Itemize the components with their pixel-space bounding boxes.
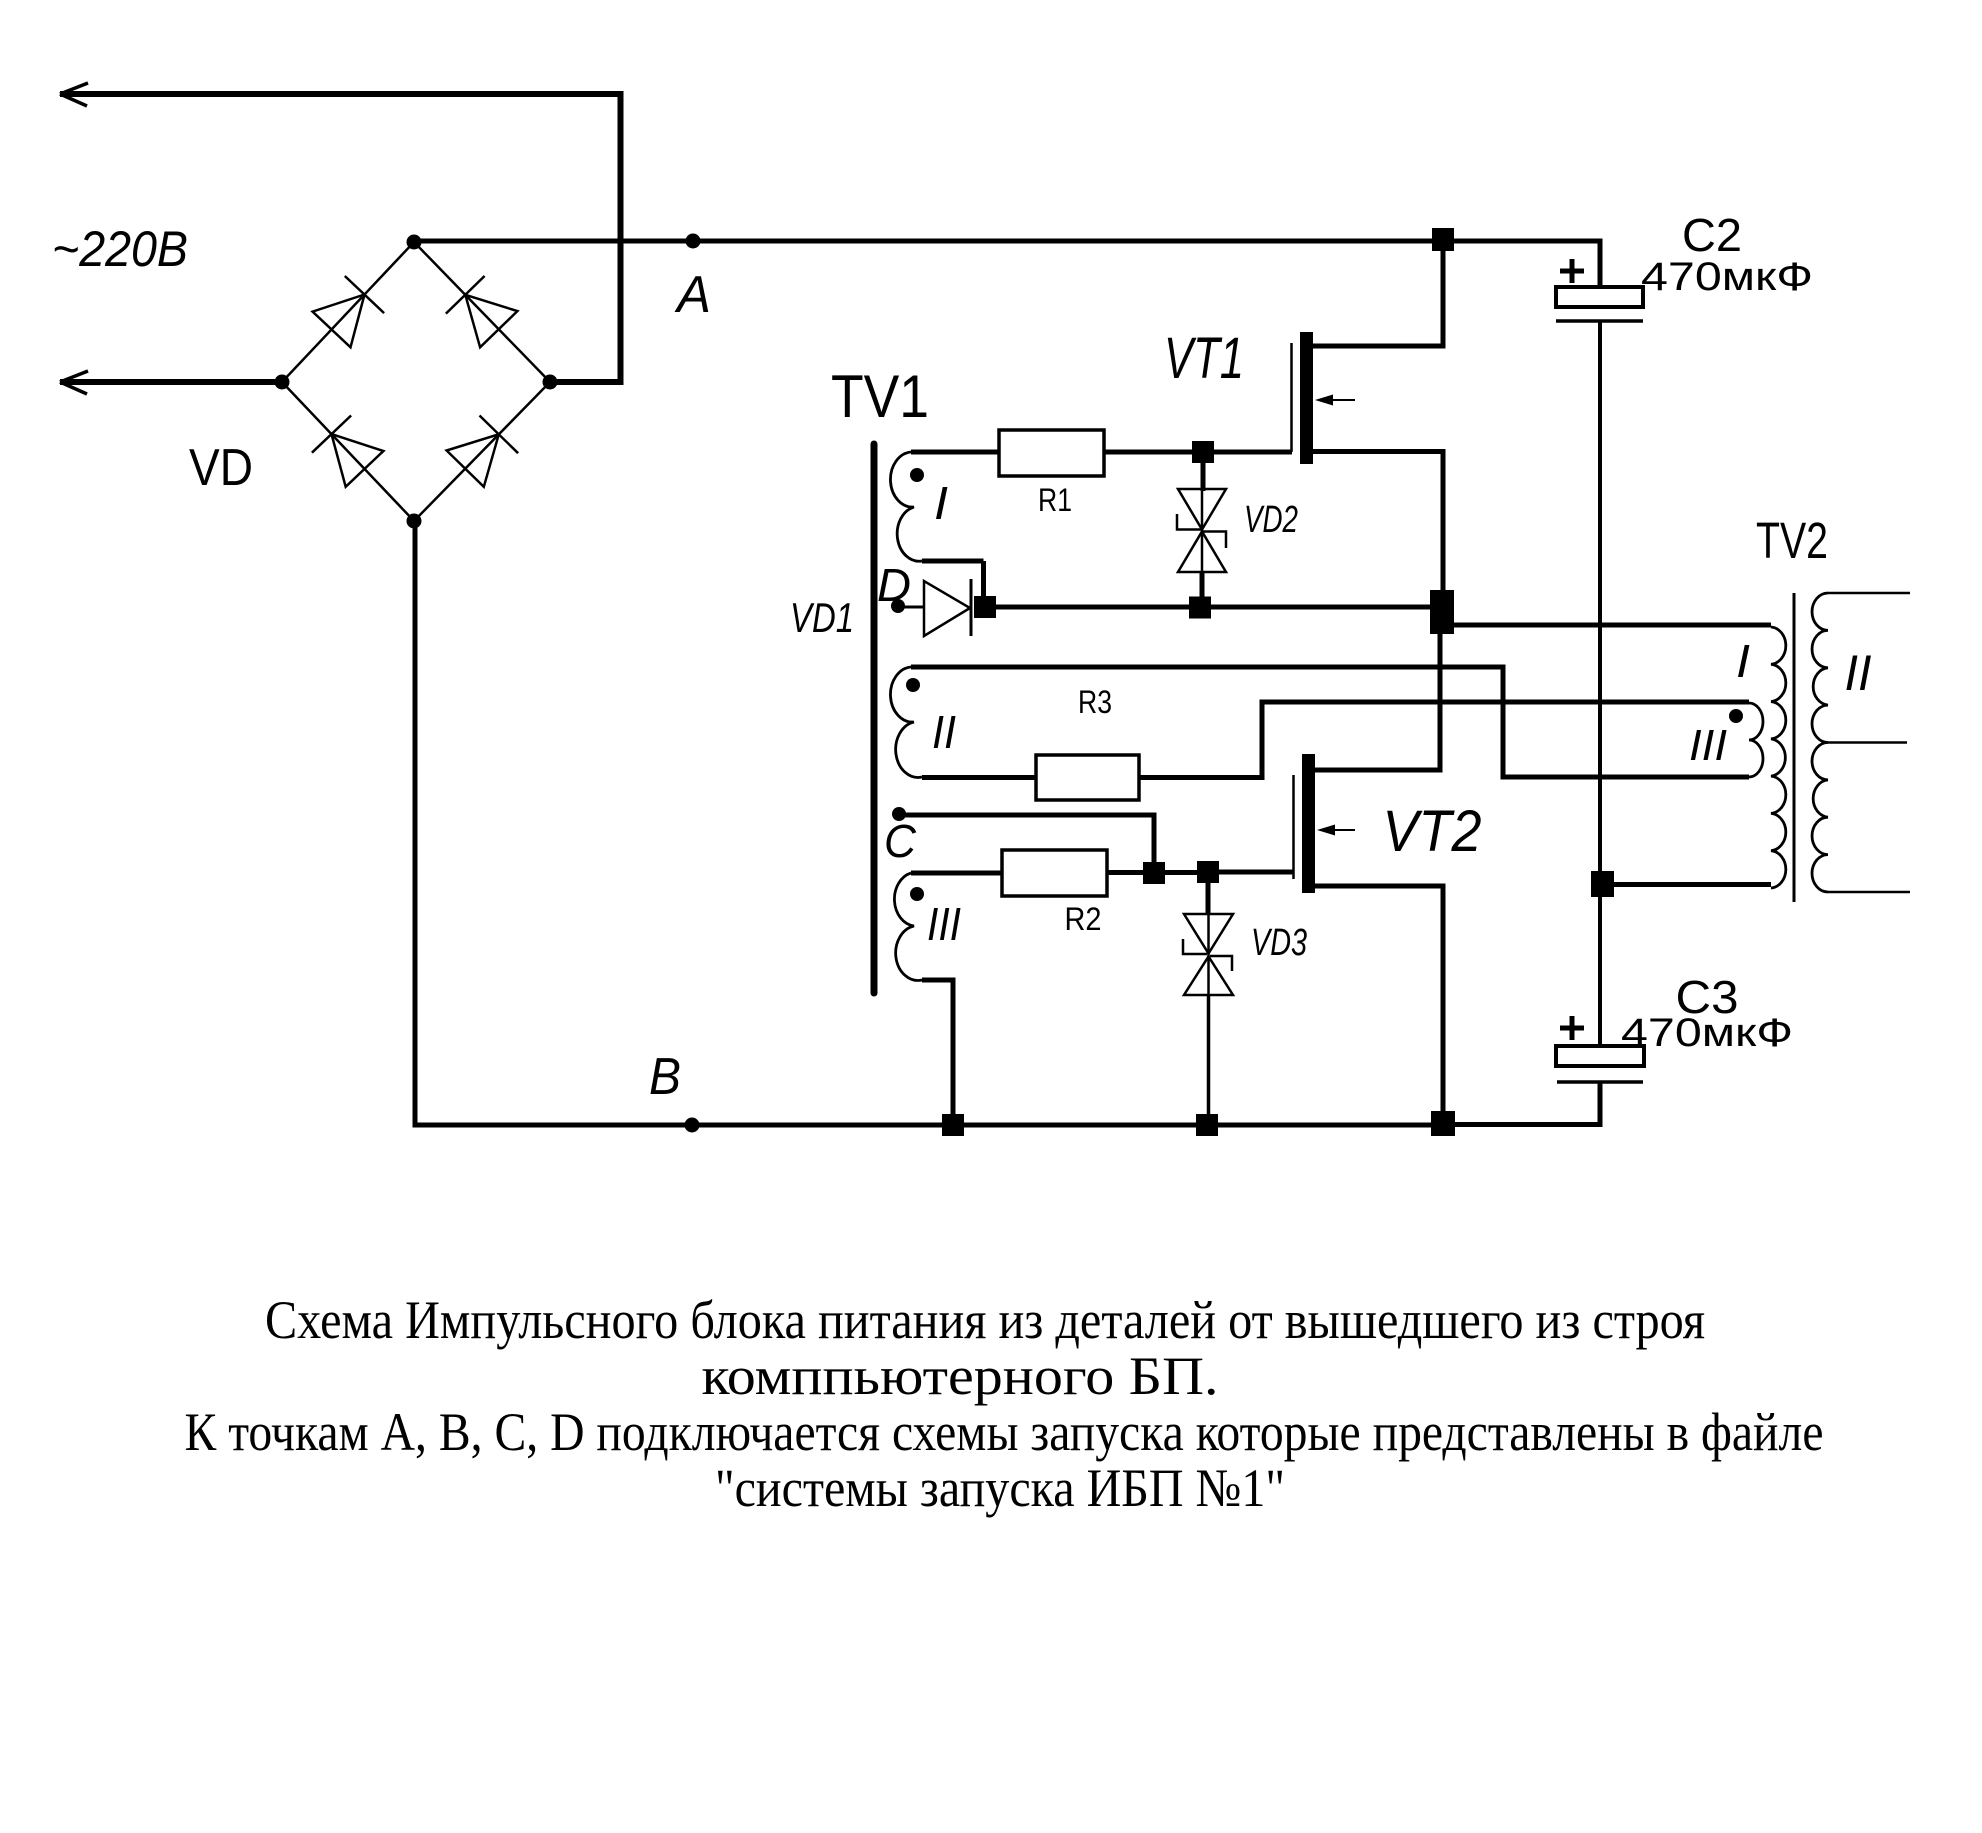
junction D rail / VD2 bottom [1189,597,1211,619]
VT1 substrate arrow [1322,399,1355,401]
arrowhead top AC lead [60,83,88,106]
wire vertical from top lead to bridge right node [618,91,624,382]
wire bridge right node to vertical [550,379,624,385]
junction VD1 cathode / TV1 winding I bottom [974,596,996,618]
svg-text:I: I [934,477,948,529]
svg-text:VD3: VD3 [1251,922,1307,964]
winding TV2 III [1749,703,1763,777]
wire TV1 winding III bottom down to B rail [922,980,956,1116]
terminals TV2 winding II [1828,593,1910,892]
junction B rail / TV1 winding III [942,1114,964,1136]
wire down into C2 top plate [1598,239,1603,290]
wire TV1 winding II top jog down to TV2 winding III bottom [1503,665,1749,780]
bridge diode upper-right [465,295,517,348]
svg-text:I: I [1736,635,1750,687]
dot TV1 winding I polarity [910,468,924,482]
wire VT1 drain horizontal [1313,344,1446,349]
wire TV1 winding I top to R1 [911,450,999,455]
wire VT2 drain up to main junction [1438,632,1443,773]
svg-text:TV1: TV1 [831,363,929,430]
dot TV2 winding III polarity [1729,709,1743,723]
suppressor VD3 [1207,914,1210,995]
wire A rail junction to C2 [1454,239,1603,244]
wire TV1 winding III top to R2 [911,871,1002,876]
svg-text:III: III [1689,721,1727,770]
svg-text:Схема Импульсного блока питани: Схема Импульсного блока питания из детал… [265,1290,1705,1350]
diode VD1 [924,581,970,636]
core TV1 [871,444,878,993]
junction B rail / VT2 source / C3 [1431,1111,1455,1136]
suppressor VD2 [1201,489,1204,572]
svg-text:VT1: VT1 [1164,326,1244,391]
junction A rail / VT1 drain / C2 [1432,228,1454,251]
node bridge right (AC) [543,375,558,390]
wire bottom AC lead [60,379,284,385]
svg-text:B: B [649,1048,681,1106]
svg-text:D: D [877,559,911,611]
bridge diode upper-left [313,295,365,348]
wire R3 jog up to TV2 winding III top [1139,700,1749,781]
svg-text:~220В: ~220В [52,221,188,277]
wire D rail to main junction [996,605,1432,610]
bridge diode lower-left [332,434,384,487]
wire VT2 drain horizontal [1315,768,1443,773]
wire VD3 top [1206,883,1211,915]
svg-text:VD: VD [189,439,253,497]
core TV2 [1793,593,1796,902]
wire VD2 bottom to D rail [1200,572,1205,598]
svg-text:VD1: VD1 [790,594,854,641]
winding TV1 III [894,873,922,980]
svg-text:C: C [884,815,917,867]
node bridge top (DC+) [407,235,422,250]
wire D node to VD1 anode [898,606,925,609]
node bridge bottom (DC-) [407,514,422,529]
transistor VT1 channel bar [1300,332,1313,464]
winding TV2 I [1771,627,1786,888]
capacitor C3 [1560,1016,1584,1040]
junction main node D rail / VT1 source / VT2 drain / TV2 I [1430,590,1454,634]
svg-text:R1: R1 [1038,482,1072,518]
resistor R3 [1036,755,1139,800]
junction right bus / TV2 winding I bottom [1591,871,1614,897]
svg-text:A: A [674,266,711,324]
node C [892,807,906,821]
wire main junction to TV2 winding I top [1454,623,1771,628]
resistor R2 [1002,850,1107,896]
wire VD3 bottom to B rail [1207,995,1211,1114]
svg-text:C2: C2 [1682,209,1742,261]
wire VT1 source down to D junction [1441,451,1446,592]
dot TV1 winding II polarity [906,678,920,692]
wire VT2 source down to B rail [1441,886,1446,1113]
arrowhead bottom AC lead [60,371,88,394]
svg-text:VT2: VT2 [1383,799,1482,864]
svg-text:"системы запуска ИБП №1": "системы запуска ИБП №1" [715,1458,1285,1518]
svg-text:комппьютерного БП.: комппьютерного БП. [702,1346,1219,1406]
wire junction to VT2 gate [1219,870,1294,875]
dot TV1 winding III polarity [910,887,924,901]
wire R1 to VT1 gate [1104,450,1292,455]
winding TV2 II [1812,593,1828,892]
wire B rail from bridge bottom [415,521,1431,1128]
diode bridge VD outline [282,242,550,521]
bridge diode lower-right [447,434,499,487]
junction R2 / VD3 [1197,861,1219,883]
VT2 substrate arrow [1324,829,1355,831]
svg-text:II: II [932,706,956,758]
svg-text:R3: R3 [1078,684,1112,720]
junction B rail / VD3 [1196,1114,1218,1136]
svg-text:VD2: VD2 [1244,499,1298,541]
transistor VT2 channel bar [1302,754,1315,893]
wire VT2 source horizontal [1315,884,1446,889]
wire VT1 drain up to A junction [1441,241,1446,349]
node D [891,599,905,613]
svg-text:II: II [1845,645,1872,701]
node A [686,234,701,249]
wire top AC lead [60,91,623,97]
svg-text:470мкФ: 470мкФ [1621,1011,1793,1055]
wire TV1 winding II top to TV2 III jog [911,665,1506,670]
wire A rail from bridge to VT1 drain junction [414,239,1432,244]
resistor R1 [999,430,1104,476]
capacitor C2 [1560,259,1584,283]
node B [685,1118,700,1133]
VT2 gate electrode [1292,775,1295,879]
svg-text:III: III [927,898,961,950]
wire TV1 winding II bottom to R3 [922,775,1036,780]
wire C node to R2 output junction [899,815,1157,864]
wire TV1 winding I bottom to VD1 cathode node [922,561,984,600]
svg-text:К точкам А, В, С, D подключает: К точкам А, В, С, D подключается схемы з… [185,1402,1824,1462]
wire C2 negative rail down right bus [1598,321,1602,1048]
winding TV1 I [890,452,922,561]
svg-text:R2: R2 [1065,901,1102,937]
wire VT1 source horizontal [1313,449,1446,454]
node bridge left (AC) [275,375,290,390]
VT1 gate electrode [1290,343,1293,452]
svg-text:TV2: TV2 [1756,512,1828,569]
junction R1 / VD2 [1192,441,1214,463]
winding TV1 II [890,667,922,777]
wire VD2 top [1201,463,1206,491]
junction C wire / R2 output [1143,862,1165,884]
wire B junction to C3 bottom plate [1455,1082,1603,1127]
svg-text:470мкФ: 470мкФ [1641,255,1813,299]
wire TV2 winding I bottom to bus [1614,882,1771,887]
wire R2 to junctions [1107,870,1197,875]
